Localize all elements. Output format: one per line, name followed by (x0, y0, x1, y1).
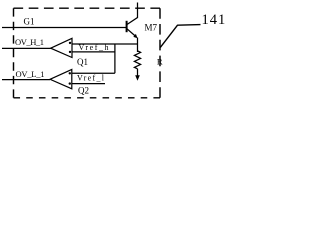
pointer line to 141 (160, 25, 200, 48)
svg-text:R: R (157, 57, 163, 67)
wire resistor to ground arrow (137, 69, 139, 76)
op-amp Q1 input dot top (69, 42, 71, 44)
op-amp Q2 triangle (50, 69, 72, 88)
svg-text:141: 141 (202, 12, 227, 28)
ground arrow (135, 75, 140, 81)
op-amp Q2 input dot top (69, 72, 71, 74)
op-amp Q2 input dot bottom (69, 82, 71, 84)
op-amp Q1 triangle (51, 38, 72, 57)
transistor M7 collector (127, 3, 138, 25)
svg-text:OV_H_1: OV_H_1 (15, 37, 44, 47)
dashed border box 141 bottom edge (14, 97, 161, 99)
svg-text:G1: G1 (24, 17, 35, 27)
resistor R zigzag (134, 51, 140, 69)
wire OV_L_1 output of Q2 (2, 79, 50, 81)
dashed border box 141 right edge (159, 8, 161, 98)
transistor M7 base bar (126, 21, 128, 32)
op-amp Q1 input dot bottom (69, 51, 71, 53)
wire Q2 top input to branch (72, 72, 115, 74)
svg-text:M7: M7 (145, 23, 158, 33)
svg-text:Q1: Q1 (77, 57, 88, 67)
wire emitter node to Q1 top input (72, 43, 139, 45)
transistor M7 emitter with arrow (127, 29, 136, 37)
wire emitter to resistor node (137, 38, 139, 53)
wire Vref_l to Q2 bottom input (72, 83, 106, 85)
svg-text:Q2: Q2 (78, 86, 89, 96)
wire vertical branch to Q2 (114, 44, 116, 73)
wire OV_H_1 output of Q1 (2, 47, 51, 49)
dashed border box 141 left edge (13, 8, 15, 98)
svg-text:OV_L_1: OV_L_1 (16, 69, 45, 79)
wire Vref_h to Q1 bottom input (72, 51, 116, 53)
wire G1 input (2, 27, 126, 29)
dashed border box 141 top edge (14, 7, 161, 9)
